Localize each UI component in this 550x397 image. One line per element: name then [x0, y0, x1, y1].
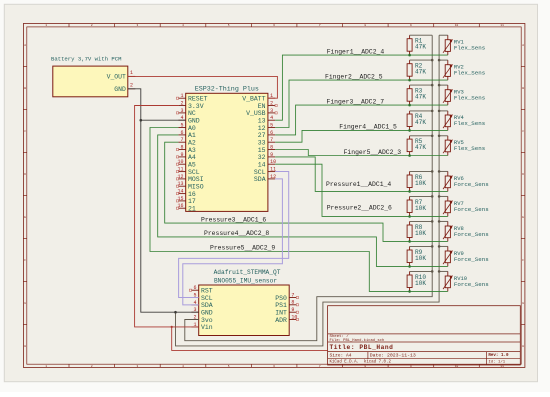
svg-text:14: 14: [258, 162, 266, 169]
variable resistor RV6 Force_Sens: [443, 171, 489, 191]
svg-text:33: 33: [258, 140, 266, 147]
svg-text:8: 8: [291, 300, 294, 306]
wire R1 top to bus1: [410, 34, 433, 36]
ESP32 right pin 1 V_BATT: [242, 93, 275, 102]
svg-text:MISO: MISO: [188, 184, 204, 191]
ESP32 left pin 4 GND: [178, 115, 199, 124]
bus1 3.3V rail: [185, 35, 432, 341]
svg-text:Finger5__ADC2_3: Finger5__ADC2_3: [344, 149, 402, 156]
ESP32 left pin 16 21: [176, 203, 196, 212]
variable resistor RV1 Flex_Sens: [443, 35, 485, 55]
svg-text:SCL: SCL: [188, 169, 200, 176]
net label Finger5__ADC2_3: [344, 149, 402, 156]
svg-text:G: G: [24, 302, 26, 305]
wire SDA violet: [183, 179, 283, 305]
svg-text:ADR: ADR: [275, 317, 287, 324]
wire net Finger2__ADC2_5: [275, 80, 448, 127]
resistor R10 10K: [407, 271, 426, 291]
svg-text:8: 8: [270, 144, 273, 150]
wire R7 top to bus1: [410, 195, 433, 197]
wire net Pressure5__ADC2_9: [150, 128, 448, 292]
junction bus2 row6: [438, 170, 441, 173]
svg-text:C: C: [24, 130, 26, 133]
junction bus1 row9: [431, 245, 434, 248]
IMU left pin 6 RST: [189, 285, 212, 294]
sheet border frame: [23, 24, 525, 368]
junction bus2 row4: [438, 110, 441, 113]
IMU right pin 10 ADR: [275, 314, 298, 323]
battery value label: [51, 55, 122, 62]
svg-text:Force_Sens: Force_Sens: [454, 281, 489, 288]
svg-text:NC: NC: [188, 110, 196, 117]
wire R5 top to bus1: [410, 135, 433, 137]
resistor R2 47K: [407, 60, 426, 80]
ESP32 right pin 8 15: [258, 144, 275, 153]
svg-text:5: 5: [270, 122, 273, 128]
wire RV6 top to bus2: [439, 170, 448, 172]
svg-text:12: 12: [258, 125, 266, 132]
junction GND branch: [174, 311, 177, 314]
ESP32 left pin 11 SCL: [176, 167, 199, 176]
variable resistor RV9 Force_Sens: [443, 246, 489, 266]
net label Pressure2__ADC2_6: [327, 204, 392, 211]
junction bus1 row4: [431, 110, 434, 113]
ESP32 left pin 15 17: [176, 196, 196, 205]
battery pin 1 V_OUT: [107, 70, 136, 81]
svg-text:H: H: [522, 345, 524, 348]
svg-text:47K: 47K: [415, 94, 426, 101]
svg-text:G: G: [522, 302, 524, 305]
svg-text:6: 6: [273, 24, 275, 27]
svg-text:Battery 3,7V with PCM: Battery 3,7V with PCM: [51, 55, 122, 62]
svg-text:ESP32-Thing Plus: ESP32-Thing Plus: [195, 86, 259, 94]
IMU left pin 2 3vo: [191, 314, 212, 323]
svg-text:C: C: [522, 130, 524, 133]
svg-text:A0: A0: [188, 125, 196, 132]
svg-text:6: 6: [180, 130, 183, 136]
svg-text:11: 11: [500, 24, 504, 27]
wire net Finger1__ADC2_4: [275, 55, 448, 120]
svg-text:H: H: [24, 345, 26, 348]
wire net Finger5__ADC2_3: [275, 150, 448, 156]
junction Vin corner: [171, 326, 173, 328]
wire net Pressure2__ADC2_6: [275, 164, 448, 216]
svg-text:5: 5: [228, 24, 230, 27]
wire R6 top to bus1: [410, 170, 433, 172]
svg-text:BNO055_IMU_sensor: BNO055_IMU_sensor: [214, 277, 277, 284]
svg-text:7: 7: [319, 365, 321, 368]
IMU right pin 8 PS1: [275, 300, 298, 309]
svg-text:47K: 47K: [415, 144, 426, 151]
net label Finger1__ADC2_4: [327, 48, 385, 55]
svg-text:A4: A4: [188, 154, 196, 161]
svg-text:9: 9: [291, 307, 294, 313]
svg-text:Force_Sens: Force_Sens: [454, 181, 489, 188]
svg-text:D: D: [522, 173, 524, 176]
IMU right pin 7 PS0: [275, 292, 298, 301]
svg-text:6: 6: [193, 285, 196, 291]
ESP32 right pin 3 V_USB: [246, 108, 277, 117]
svg-text:SDA: SDA: [201, 302, 213, 309]
svg-text:A5: A5: [188, 162, 196, 169]
wire RV2 top to bus2: [439, 59, 448, 61]
svg-text:Flex_Sens: Flex_Sens: [454, 145, 485, 152]
ESP32 left pin 1 RESET: [176, 93, 207, 102]
junction bus2 row10: [438, 270, 441, 273]
variable resistor RV7 Force_Sens: [443, 196, 489, 216]
junction bus2 row2: [438, 59, 441, 62]
svg-text:Flex_Sens: Flex_Sens: [454, 120, 485, 127]
svg-text:Pressure4__ADC2_8: Pressure4__ADC2_8: [204, 230, 269, 237]
junction bus2 row7: [438, 195, 441, 198]
net label Finger4__ADC1_5: [339, 124, 397, 131]
variable resistor RV10 Force_Sens: [443, 271, 489, 291]
ESP32 right pin 6 27: [258, 130, 275, 139]
ESP32 right pin 2 EN: [258, 100, 277, 109]
svg-text:7: 7: [291, 292, 294, 298]
resistor R4 47K: [407, 111, 426, 130]
junction bus1 row3: [431, 84, 434, 87]
svg-text:PS1: PS1: [275, 302, 287, 309]
wire RV5 top to bus2: [439, 135, 448, 137]
net label Finger3__ADC2_7: [327, 98, 385, 105]
svg-text:Id: 1/1: Id: 1/1: [488, 360, 505, 365]
battery pin 2 GND: [114, 82, 135, 93]
svg-text:SCL: SCL: [254, 169, 266, 176]
junction bus1 row10: [431, 270, 434, 273]
svg-text:3: 3: [137, 365, 139, 368]
resistor R7 10K: [407, 196, 426, 216]
junction R1 bottom: [408, 54, 411, 57]
net label Finger2__ADC2_5: [325, 73, 383, 80]
svg-text:SCL: SCL: [201, 295, 213, 302]
junction bus1 row5: [431, 135, 434, 138]
ESP32 right pin 9 32: [258, 152, 275, 161]
svg-text:Finger2__ADC2_5: Finger2__ADC2_5: [325, 73, 383, 80]
wire V_OUT to V_BATT: [128, 76, 277, 98]
svg-text:Date: 2023-11-13: Date: 2023-11-13: [370, 352, 416, 358]
wire net Pressure3__ADC1_6: [165, 142, 448, 241]
svg-text:16: 16: [188, 191, 196, 198]
resistor R9 10K: [407, 246, 426, 266]
wire 3.3V to Vin: [135, 106, 199, 327]
wire RV4 top to bus2: [439, 110, 448, 112]
svg-text:10K: 10K: [415, 280, 426, 287]
junction bus1 row8: [431, 220, 434, 223]
junction bus1 row7: [431, 195, 434, 198]
svg-text:F: F: [522, 259, 524, 262]
net label Pressure5__ADC2_9: [210, 245, 275, 252]
ESP32 left pin 6 A1: [178, 130, 196, 139]
svg-text:2: 2: [91, 365, 93, 368]
svg-text:17: 17: [188, 198, 196, 205]
wire Vin branch red: [172, 327, 328, 351]
wire SCL violet: [179, 172, 289, 298]
IMU left pin 3 GND: [191, 307, 212, 316]
ESP32 left pin 3 NC: [176, 108, 196, 117]
svg-text:32: 32: [258, 154, 266, 161]
svg-text:10K: 10K: [415, 205, 426, 212]
variable resistor RV8 Force_Sens: [443, 221, 489, 241]
svg-text:3: 3: [137, 24, 139, 27]
svg-text:A3: A3: [188, 147, 196, 154]
battery BT1 body: [53, 66, 128, 97]
wire battery GND down: [128, 89, 199, 312]
svg-text:5: 5: [180, 122, 183, 128]
svg-text:Adafruit_STEMMA_QT: Adafruit_STEMMA_QT: [214, 269, 281, 276]
svg-text:INT: INT: [275, 310, 287, 317]
junction R6 bottom: [408, 190, 411, 193]
svg-text:3.3V: 3.3V: [188, 103, 204, 110]
wire RV3 top to bus2: [439, 84, 448, 86]
junction R2 bottom: [408, 79, 411, 82]
svg-text:47K: 47K: [415, 119, 426, 126]
ESP32 left pin 5 A0: [178, 122, 196, 131]
svg-text:A1: A1: [188, 132, 196, 139]
wire net Pressure1__ADC1_4: [275, 157, 448, 192]
svg-text:Title: PBL_Hand: Title: PBL_Hand: [330, 344, 394, 351]
svg-text:47K: 47K: [415, 44, 426, 51]
wire net Pressure4__ADC2_8: [158, 135, 448, 267]
svg-text:Pressure5__ADC2_9: Pressure5__ADC2_9: [210, 245, 275, 252]
svg-text:2: 2: [270, 100, 273, 106]
svg-text:13: 13: [258, 118, 266, 125]
wire GND tap to ESP32: [141, 119, 186, 121]
wire RV1 top to bus2: [439, 34, 448, 36]
wire RV8 top to bus2: [439, 220, 448, 222]
junction R9 bottom: [408, 265, 411, 268]
variable resistor RV4 Flex_Sens: [443, 111, 485, 130]
svg-text:A2: A2: [188, 140, 196, 147]
junction R3 bottom: [408, 104, 411, 107]
svg-text:Pressure2__ADC2_6: Pressure2__ADC2_6: [327, 204, 392, 211]
IMU left pin 4 SDA: [191, 300, 212, 309]
IMU left pin 5 SCL: [191, 292, 212, 301]
svg-text:V_BATT: V_BATT: [242, 96, 266, 103]
svg-text:Rev: 1.0: Rev: 1.0: [488, 354, 509, 358]
svg-text:21: 21: [188, 206, 196, 213]
junction bus1 row6: [431, 170, 434, 173]
ESP32 right pin 4 13: [258, 115, 275, 124]
resistor R5 47K: [407, 136, 426, 156]
svg-text:3: 3: [270, 108, 273, 114]
wire RV7 top to bus2: [439, 195, 448, 197]
wire R10 top to bus1: [410, 270, 433, 272]
ESP32 left pin 7 A2: [178, 137, 196, 146]
svg-text:7: 7: [180, 137, 183, 143]
junction bus2 row3: [438, 84, 441, 87]
svg-text:9: 9: [270, 152, 273, 158]
ESP32 left pin 10 A5: [176, 159, 196, 168]
svg-text:A: A: [24, 44, 26, 47]
svg-text:GND: GND: [201, 310, 213, 317]
svg-text:D: D: [24, 173, 26, 176]
ESP32 left pin 12 MOSI: [176, 174, 203, 183]
svg-text:PS0: PS0: [275, 295, 287, 302]
resistor R6 10K: [407, 171, 426, 191]
svg-text:Flex_Sens: Flex_Sens: [454, 95, 485, 102]
svg-text:10K: 10K: [415, 255, 426, 262]
resistor R3 47K: [407, 85, 426, 105]
svg-text:6: 6: [270, 130, 273, 136]
svg-text:V_OUT: V_OUT: [107, 74, 126, 81]
svg-text:7: 7: [270, 137, 273, 143]
ESP32 value label: [195, 86, 259, 94]
junction R4 bottom: [408, 129, 411, 132]
svg-text:EN: EN: [258, 103, 266, 110]
ESP32 left pin 8 A3: [176, 144, 196, 153]
svg-text:Force_Sens: Force_Sens: [454, 256, 489, 263]
ESP32 right pin 7 33: [258, 137, 275, 146]
IMU left pin 1 Vin: [191, 322, 212, 331]
svg-text:2: 2: [180, 100, 183, 106]
svg-text:7: 7: [319, 24, 321, 27]
svg-text:4: 4: [182, 365, 184, 368]
IMU U2 body: [199, 285, 290, 336]
wire R3 top to bus1: [410, 84, 433, 86]
svg-text:8: 8: [364, 24, 366, 27]
svg-text:V_USB: V_USB: [246, 110, 266, 117]
junction bus2 row9: [438, 245, 441, 248]
ESP32 left pin 2 3.3V: [178, 100, 203, 109]
ESP32 U1 body: [186, 93, 268, 211]
svg-text:B: B: [24, 87, 26, 90]
net label Pressure3__ADC1_6: [201, 216, 266, 223]
svg-text:27: 27: [258, 132, 266, 139]
svg-text:F: F: [24, 259, 26, 262]
ESP32 left pin 9 A4: [176, 152, 196, 161]
wire net Finger3__ADC2_7: [275, 105, 448, 135]
svg-text:8: 8: [180, 144, 183, 150]
svg-text:KiCad E.D.A. kicad 7.0.2: KiCad E.D.A. kicad 7.0.2: [330, 360, 392, 365]
svg-text:1: 1: [45, 24, 47, 27]
junction R7 bottom: [408, 215, 411, 218]
wire net Finger4__ADC1_5: [275, 130, 448, 142]
svg-text:9: 9: [410, 24, 412, 27]
svg-text:Finger4__ADC1_5: Finger4__ADC1_5: [339, 124, 397, 131]
svg-text:Force_Sens: Force_Sens: [454, 231, 489, 238]
svg-text:E: E: [24, 216, 26, 219]
ESP32 left pin 14 16: [176, 189, 196, 198]
svg-text:4: 4: [182, 24, 184, 27]
svg-text:47K: 47K: [415, 69, 426, 76]
junction R5 bottom: [408, 154, 411, 157]
wire R2 top to bus1: [410, 59, 433, 61]
svg-text:MOSI: MOSI: [188, 176, 204, 183]
variable resistor RV2 Flex_Sens: [443, 60, 485, 80]
wire R8 top to bus1: [410, 220, 433, 222]
svg-text:GND: GND: [188, 118, 200, 125]
svg-text:3vo: 3vo: [201, 317, 213, 324]
svg-text:Pressure3__ADC1_6: Pressure3__ADC1_6: [201, 216, 266, 223]
svg-text:4: 4: [270, 115, 273, 121]
junction bus1 row2: [431, 59, 434, 62]
svg-text:3: 3: [180, 108, 183, 114]
svg-text:Finger3__ADC2_7: Finger3__ADC2_7: [327, 98, 385, 105]
svg-text:SDA: SDA: [254, 176, 266, 183]
ESP32 right pin 10 14: [258, 159, 276, 168]
net label Pressure4__ADC2_8: [204, 230, 269, 237]
svg-text:RESET: RESET: [188, 96, 208, 103]
svg-text:Force_Sens: Force_Sens: [454, 206, 489, 213]
variable resistor RV3 Flex_Sens: [443, 85, 485, 105]
svg-text:Flex_Sens: Flex_Sens: [454, 70, 485, 77]
ESP32 right pin 11 SCL: [254, 167, 276, 176]
svg-text:2: 2: [130, 82, 133, 88]
svg-text:6: 6: [273, 365, 275, 368]
junction GND ESP32: [140, 119, 143, 122]
ESP32 right pin 12 SDA: [254, 174, 276, 183]
IMU right pin 9 INT: [275, 307, 298, 316]
wire RV10 top to bus2: [439, 270, 448, 272]
svg-text:GND: GND: [114, 86, 126, 93]
junction R10 bottom: [408, 290, 411, 293]
svg-text:Finger1__ADC2_4: Finger1__ADC2_4: [327, 48, 385, 55]
svg-text:9: 9: [180, 152, 183, 158]
svg-text:File: PBL_Hand.kicad_sch: File: PBL_Hand.kicad_sch: [330, 338, 385, 343]
svg-text:Size: A4: Size: A4: [330, 352, 352, 358]
IMU value label Adafruit_STEMMA_QT: [214, 269, 281, 276]
resistor R1 47K: [407, 35, 426, 55]
svg-text:Pressure1__ADC1_4: Pressure1__ADC1_4: [326, 181, 391, 188]
IMU name label BNO055_IMU_sensor: [214, 277, 277, 284]
resistor R8 10K: [407, 221, 426, 241]
net label Pressure1__ADC1_4: [326, 181, 391, 188]
variable resistor RV5 Flex_Sens: [443, 136, 485, 156]
svg-text:10: 10: [455, 24, 459, 27]
svg-text:A: A: [522, 44, 524, 47]
bus2 GND rail: [176, 35, 440, 346]
svg-text:10K: 10K: [415, 230, 426, 237]
title block: [328, 306, 521, 365]
svg-text:5: 5: [228, 365, 230, 368]
svg-text:15: 15: [258, 147, 266, 154]
junction bus2 row8: [438, 220, 441, 223]
junction R8 bottom: [408, 240, 411, 243]
svg-text:1: 1: [45, 365, 47, 368]
svg-text:RST: RST: [201, 288, 213, 295]
svg-text:2: 2: [91, 24, 93, 27]
svg-text:1: 1: [130, 70, 133, 76]
junction bus2 row5: [438, 135, 441, 138]
svg-text:Flex_Sens: Flex_Sens: [454, 45, 485, 52]
svg-text:B: B: [522, 87, 524, 90]
ESP32 right pin 5 12: [258, 122, 275, 131]
svg-text:10K: 10K: [415, 180, 426, 187]
ESP32 left pin 13 MISO: [176, 181, 203, 190]
svg-text:Vin: Vin: [201, 324, 213, 331]
wire R4 top to bus1: [410, 110, 433, 112]
wire R9 top to bus1: [410, 245, 433, 247]
wire RV9 top to bus2: [439, 245, 448, 247]
svg-text:E: E: [522, 216, 524, 219]
svg-text:1: 1: [180, 93, 183, 99]
